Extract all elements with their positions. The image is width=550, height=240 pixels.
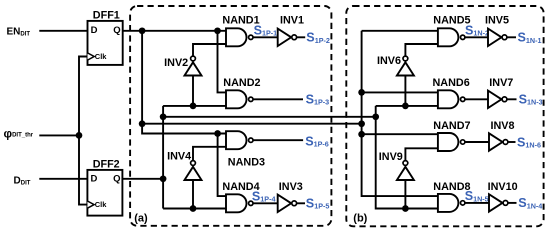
wire INV3 output: [297, 202, 305, 204]
svg-text:DFF1: DFF1: [93, 10, 120, 22]
wire node A riser to NAND2.A: [218, 31, 227, 93]
wire node A to NAND6.A: [362, 91, 438, 93]
svg-text:INV1: INV1: [280, 14, 304, 26]
wire node A vertical in (b) to NAND8.A: [362, 31, 438, 196]
wire INV10 output: [508, 202, 516, 204]
svg-text:NAND6: NAND6: [433, 77, 470, 89]
wire node B to NAND4.B: [163, 208, 226, 210]
inverter INV10 output bubble: [503, 201, 508, 206]
svg-text:INV2: INV2: [164, 57, 188, 69]
svg-text:S1P-4: S1P-4: [252, 189, 276, 203]
wire phi_DIT_thr to clock node: [39, 134, 79, 136]
junction node A branch down: [139, 27, 146, 34]
junction node A to bus A: [139, 120, 146, 127]
svg-text:NAND7: NAND7: [433, 120, 470, 132]
svg-text:(b): (b): [353, 213, 367, 225]
NAND gate NAND8 output bubble: [461, 201, 465, 205]
wire D_DIT to DFF2.D: [39, 178, 87, 180]
wire NAND1 out to INV1: [253, 36, 278, 38]
NAND gate NAND6 output bubble: [461, 97, 465, 101]
wire NAND8 out to INV10: [465, 202, 489, 204]
NAND gate NAND7 body: [438, 133, 459, 151]
wire INV9 output to NAND7.B: [405, 148, 438, 161]
NAND gate NAND1 body: [226, 28, 247, 46]
inverter INV7 triangle: [488, 91, 502, 108]
inverter INV6 output bubble: [403, 56, 408, 61]
svg-text:D: D: [91, 174, 98, 185]
wire INV8 output: [508, 141, 515, 143]
junction node B to bus B: [160, 113, 167, 120]
junction clock/phi node: [76, 132, 83, 139]
wire node B vertical: [162, 106, 164, 209]
NAND gate NAND8 body: [438, 194, 459, 212]
svg-text:S1P-2: S1P-2: [306, 31, 330, 45]
wire NAND7 out to INV8: [465, 141, 489, 143]
wire node A to NAND7.A: [362, 133, 438, 135]
dashed block (a) border: [130, 6, 331, 226]
NAND gate NAND5 output bubble: [461, 35, 465, 39]
svg-text:INV9: INV9: [379, 151, 403, 163]
wire INV4 input riser: [192, 180, 194, 209]
svg-text:INV3: INV3: [279, 181, 303, 193]
NAND gate NAND6 body: [438, 90, 459, 108]
wire EN_DIT to DFF1.D: [39, 30, 87, 32]
wire node B to NAND2.B: [163, 105, 226, 107]
wire NAND6 out to INV7: [465, 98, 488, 100]
inverter INV8 triangle: [489, 133, 503, 150]
svg-text:INV7: INV7: [489, 77, 513, 89]
svg-text:INV6: INV6: [377, 55, 401, 67]
wire NAND4 out to INV3: [253, 202, 278, 204]
wire riser NAND3.A to NAND4.A: [218, 134, 226, 197]
wire INV6 input riser: [404, 76, 406, 106]
inverter INV5 triangle: [488, 29, 502, 46]
svg-text:Q: Q: [113, 25, 120, 36]
svg-text:INV4: INV4: [167, 151, 191, 163]
flip-flop DFF1 box: [88, 21, 123, 65]
NAND gate NAND7 output bubble: [461, 140, 465, 144]
wire bus A to block (b): [142, 123, 362, 125]
junction node A branch to NAND2.A: [214, 27, 221, 34]
inverter INV5 output bubble: [502, 35, 507, 40]
svg-text:Q: Q: [113, 174, 120, 185]
svg-text:S1P-5: S1P-5: [306, 197, 330, 211]
svg-text:S1N-4: S1N-4: [518, 196, 542, 210]
inverter INV1 triangle: [278, 29, 292, 46]
NAND gate NAND2 body: [226, 90, 247, 108]
inverter INV7 output bubble: [502, 97, 507, 102]
junction bus A joins (b) vertical: [358, 120, 365, 127]
NAND gate NAND1 output bubble: [249, 35, 253, 39]
junction NAND3.A branch to NAND4.A: [214, 130, 221, 137]
wire INV1 output: [297, 36, 305, 38]
junction bus B joins (b) vertical: [372, 113, 379, 120]
svg-text:INV5: INV5: [485, 14, 509, 26]
svg-text:S1P-6: S1P-6: [305, 134, 329, 148]
svg-text:S1P-3: S1P-3: [306, 93, 330, 107]
svg-text:D: D: [91, 25, 98, 36]
DFF1 clock triangle: [88, 53, 95, 60]
svg-text:S1N-6: S1N-6: [517, 135, 541, 149]
inverter INV9 output bubble: [403, 161, 408, 166]
inverter INV9 triangle (pointing up): [397, 167, 414, 180]
wire INV5 output: [507, 36, 516, 38]
dashed block (b) border: [346, 6, 543, 226]
wire node B vertical in (b) to NAND8.B: [376, 106, 438, 209]
junction node B to INV6 input: [402, 103, 409, 110]
junction node B at DFF2.Q: [160, 175, 167, 182]
svg-text:S1N-1: S1N-1: [518, 31, 542, 45]
DFF2 clock triangle: [87, 201, 94, 208]
NAND gate NAND3 output bubble: [249, 138, 253, 142]
svg-text:DFF2: DFF2: [93, 158, 120, 170]
wire INV4 output to NAND3.B: [193, 147, 226, 161]
NAND gate NAND4 body: [226, 194, 247, 212]
inverter INV6 triangle (pointing up): [397, 62, 414, 75]
junction node A to NAND6.A: [358, 89, 365, 96]
inverter INV2 triangle (pointing up): [185, 62, 202, 75]
wire NAND3 output: [253, 139, 303, 141]
inverter INV3 output bubble: [292, 201, 297, 206]
wire node A: DFF1.Q to NAND1.A: [123, 30, 226, 32]
wire INV6 output to NAND5.B: [405, 44, 438, 57]
wire NAND2 output: [253, 98, 303, 100]
svg-text:(a): (a): [134, 212, 148, 224]
wire node B to NAND6.B: [376, 105, 438, 107]
svg-text:S1N-3: S1N-3: [519, 93, 543, 107]
wire INV7 output: [507, 98, 516, 100]
inverter INV3 triangle: [278, 195, 292, 212]
svg-text:S1N-5: S1N-5: [465, 189, 489, 203]
wire INV2 input riser: [192, 76, 194, 106]
inverter INV4 output bubble: [191, 161, 196, 166]
svg-text:φDIT_thr: φDIT_thr: [4, 126, 34, 140]
inverter INV10 triangle: [489, 194, 503, 211]
junction node B to INV4 input: [190, 205, 197, 212]
svg-text:INV10: INV10: [488, 181, 518, 193]
svg-text:Clk: Clk: [95, 200, 108, 209]
wire node A to NAND5.A: [362, 30, 438, 32]
svg-text:INV8: INV8: [491, 120, 515, 132]
svg-text:DDIT: DDIT: [14, 175, 31, 186]
junction node B to INV2 input: [190, 103, 197, 110]
NAND gate NAND2 output bubble: [249, 97, 253, 101]
svg-text:NAND3: NAND3: [228, 156, 265, 168]
NAND gate NAND5 body: [438, 28, 459, 46]
wire INV9 input riser: [404, 180, 406, 209]
NAND gate NAND3 body: [226, 131, 247, 149]
inverter INV1 output bubble: [292, 35, 297, 40]
flip-flop DFF2 box: [87, 170, 122, 216]
junction node A to NAND7.A: [358, 131, 365, 138]
svg-text:ENDIT: ENDIT: [7, 27, 31, 38]
NAND gate NAND4 output bubble: [249, 201, 253, 205]
wire node A vertical to NAND3.A: [142, 31, 226, 134]
svg-text:Clk: Clk: [95, 52, 108, 61]
inverter INV2 output bubble: [191, 56, 196, 61]
wire INV2 output to NAND1.B: [193, 44, 226, 57]
wire bus B to block (b): [163, 116, 376, 118]
wire clock vertical phi to DFF1.Clk and DFF2.Clk: [79, 57, 88, 205]
svg-text:S1P-1: S1P-1: [254, 24, 278, 38]
svg-text:NAND2: NAND2: [223, 77, 260, 89]
wire NAND5 out to INV5: [465, 36, 488, 38]
inverter INV8 output bubble: [503, 140, 508, 145]
inverter INV4 triangle (pointing up): [185, 167, 202, 180]
wire node B: DFF2.Q output: [122, 178, 163, 180]
junction node B to INV9 input: [402, 205, 409, 212]
